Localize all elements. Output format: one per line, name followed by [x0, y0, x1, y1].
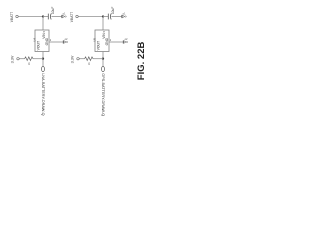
- resistor R1 (zigzag): [25, 57, 33, 61]
- terminal circle (top output terminal): [125, 16, 126, 17]
- wire (U5 output to right arrow): [109, 41, 123, 43]
- svg-text:VOUT: VOUT: [97, 41, 101, 50]
- svg-text:LNA-BATTERY-DRAW-Q: LNA-BATTERY-DRAW-Q: [41, 73, 45, 115]
- wire (junction left to resistor R2): [93, 58, 103, 60]
- svg-text:3.3V: 3.3V: [70, 55, 74, 63]
- svg-text:FIG. 22B: FIG. 22B: [136, 42, 147, 81]
- terminal circle (U5 output terminal): [126, 41, 127, 42]
- svg-text:GND: GND: [45, 37, 49, 45]
- wire (U5 ground pin down to junction): [102, 52, 104, 59]
- wire (resistor to bias terminal): [20, 58, 25, 60]
- wire (junction down to regulator U4): [42, 17, 44, 31]
- wire (junction down to regulator U5): [102, 17, 104, 31]
- terminal circle (bias input terminal): [17, 58, 19, 60]
- terminal circle (bias input terminal): [77, 58, 79, 60]
- op-amp U5 (LDO regulator box): [95, 30, 109, 52]
- terminal ellipse (net stub "0"): [42, 66, 45, 71]
- terminal ellipse (net stub "0"): [102, 66, 105, 71]
- terminal circle (input terminal of circuit 2): [76, 15, 78, 17]
- wire (U4 output to right arrow): [49, 41, 63, 43]
- output arrow (U4 output): [62, 40, 64, 43]
- svg-text:0: 0: [28, 62, 30, 66]
- svg-text:VBATT: VBATT: [10, 12, 14, 22]
- resistor R2 (zigzag): [85, 57, 93, 61]
- wire (capacitor to output arrow): [52, 16, 62, 18]
- svg-text:GPS-BATTERY-DRAW-Q: GPS-BATTERY-DRAW-Q: [101, 73, 105, 116]
- wire (resistor to bias terminal): [80, 58, 85, 60]
- op-amp U4 (LDO regulator box): [35, 30, 49, 52]
- svg-text:0: 0: [88, 62, 90, 66]
- output arrow (top output of circuit 2): [121, 15, 123, 18]
- wire (junction left to resistor R1): [33, 58, 43, 60]
- terminal circle (U4 output terminal): [66, 41, 67, 42]
- wire (junction down to ground net label): [102, 59, 104, 66]
- node C (junction dot on top rail): [102, 15, 104, 17]
- capacitor C1 (series polarized cap, plates): [48, 14, 51, 20]
- capacitor C2 (series polarized cap, plates): [108, 14, 111, 20]
- node D (junction dot below U5): [102, 58, 104, 60]
- wire (top rail from input terminal to junction): [79, 16, 104, 18]
- output arrow (top output of circuit 1): [61, 15, 63, 18]
- node B (junction dot below U4): [42, 58, 44, 60]
- wire (capacitor to output arrow): [112, 16, 122, 18]
- wire (junction to capacitor C1): [43, 16, 48, 18]
- wire (top rail from input terminal to junction): [19, 16, 44, 18]
- svg-text:GND: GND: [105, 37, 109, 45]
- terminal circle (top output terminal): [65, 16, 66, 17]
- terminal circle (input terminal of circuit 1): [16, 15, 18, 17]
- wire (junction to capacitor C2): [103, 16, 108, 18]
- node A (junction dot on top rail): [42, 15, 44, 17]
- wire (U4 ground pin down to junction): [42, 52, 44, 59]
- svg-text:VOUT: VOUT: [37, 41, 41, 50]
- svg-text:10uF: 10uF: [51, 7, 55, 14]
- svg-text:10uF: 10uF: [111, 7, 115, 14]
- wire (junction down to ground net label): [42, 59, 44, 66]
- svg-text:3.3V: 3.3V: [10, 55, 14, 63]
- output arrow (U5 output): [122, 40, 124, 43]
- svg-text:VBATT: VBATT: [70, 12, 74, 22]
